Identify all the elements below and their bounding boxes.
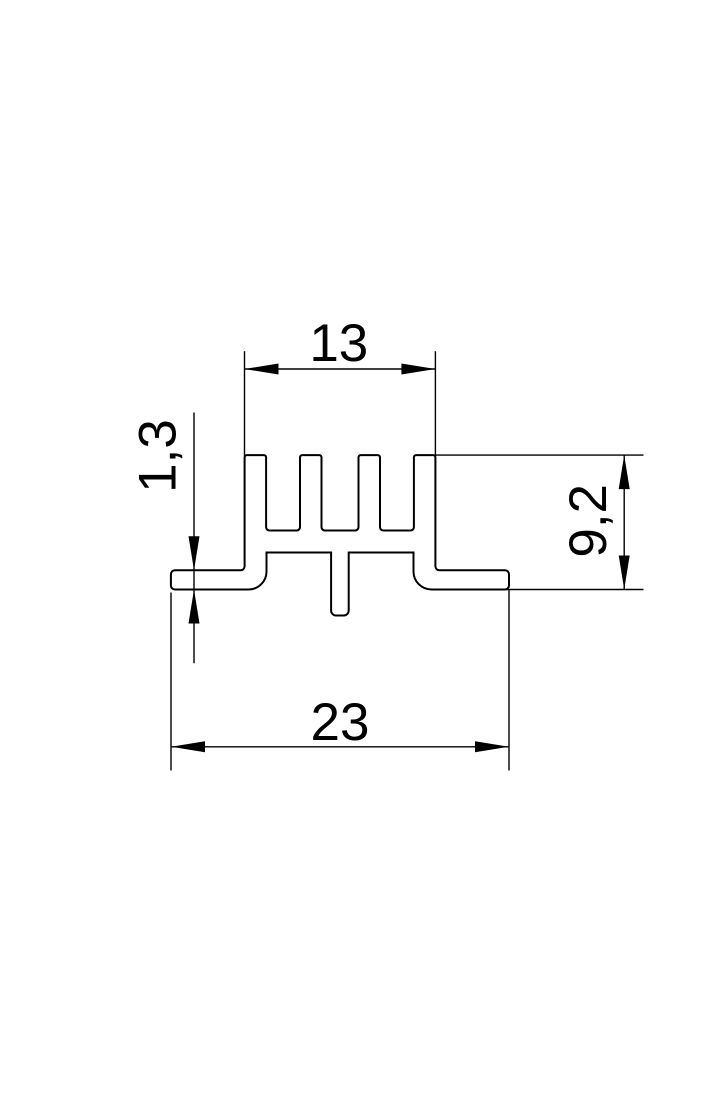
dimension 9,2: bottom arrow (points down)	[619, 556, 630, 590]
dimension 23: dimension line	[171, 746, 509, 748]
svg-text:9,2: 9,2	[559, 484, 618, 558]
dimension 23: extension line right	[508, 590, 510, 771]
dimension 13: left arrow	[245, 364, 279, 375]
heatsink profile outline	[171, 455, 509, 615]
dimension 9,2: extension line bottom	[505, 589, 644, 591]
dimension 1,3: lower arrow (points up)	[189, 590, 200, 624]
dimension 23: extension line left	[170, 593, 172, 771]
dimension 9,2: dimension line	[623, 455, 625, 589]
dimension 23: left arrow	[171, 741, 205, 752]
dimension 13: extension line left	[244, 351, 246, 456]
dimension 23: right arrow	[475, 741, 509, 752]
dimension 9,2: extension line top	[436, 454, 644, 456]
dimension 1,3: dimension line	[193, 413, 195, 664]
dimension 9,2: top arrow (points up)	[619, 455, 630, 489]
svg-text:23: 23	[311, 693, 370, 752]
svg-text:13: 13	[309, 314, 368, 373]
dimension 1,3: upper arrow (points down)	[189, 536, 200, 570]
dimension 13: dimension line	[245, 368, 436, 370]
svg-text:1,3: 1,3	[129, 419, 188, 493]
dimension 13: extension line right	[434, 351, 436, 456]
dimension 13: right arrow	[401, 364, 435, 375]
